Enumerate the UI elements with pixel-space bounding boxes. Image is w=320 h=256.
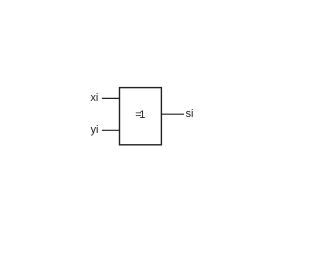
XOR gate U1 body xyxy=(120,88,162,145)
wire output si xyxy=(161,113,184,115)
svg-text:si: si xyxy=(186,108,194,120)
svg-text:xi: xi xyxy=(90,92,98,104)
svg-text:yi: yi xyxy=(91,124,99,136)
wire input yi xyxy=(102,129,120,131)
wire input xi xyxy=(102,97,120,99)
svg-text:1: 1 xyxy=(139,109,145,121)
